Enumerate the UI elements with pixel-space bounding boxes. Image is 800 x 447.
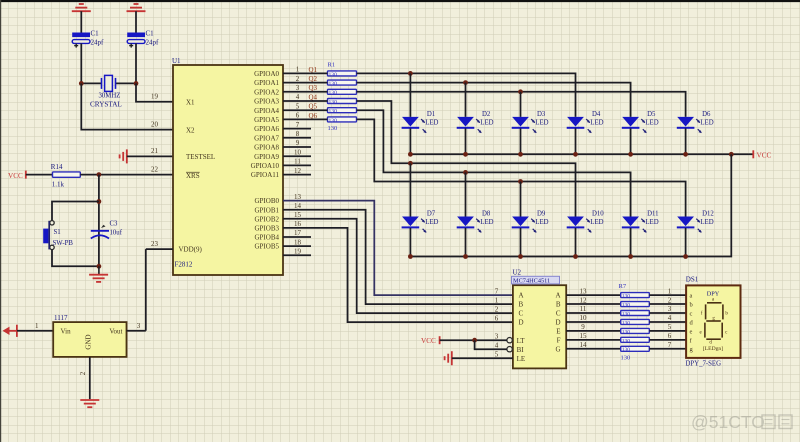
svg-text:11: 11 [580, 305, 587, 313]
diode D2 LED [457, 111, 494, 133]
wire D5 to rail [630, 128, 632, 154]
pin stub GPIOA10 [283, 164, 311, 166]
svg-text:22: 22 [151, 166, 159, 174]
junction at switch branch [97, 199, 102, 204]
svg-text:3: 3 [296, 84, 300, 92]
wire C1 left to crystal node [80, 43, 82, 83]
wire net Q3 to D3 and D6 [357, 92, 686, 117]
svg-text:13: 13 [580, 287, 588, 295]
svg-text:8: 8 [296, 130, 300, 138]
wire pin 1 to resistor [283, 72, 328, 74]
svg-text:D6: D6 [702, 111, 711, 118]
wire branch to switch S1 [52, 202, 99, 221]
wire net Q4 to D7 and D10 [357, 101, 576, 217]
svg-text:C1: C1 [91, 29, 100, 37]
svg-text:1: 1 [668, 287, 672, 295]
svg-text:Vin: Vin [61, 328, 72, 336]
svg-text:1.1k: 1.1k [52, 181, 65, 189]
svg-text:GPIOA8: GPIOA8 [254, 144, 279, 152]
svg-text:GPIOB1: GPIOB1 [254, 206, 279, 214]
svg-text:G: G [555, 345, 560, 353]
ground at LE [445, 351, 452, 365]
svg-text:130: 130 [329, 72, 338, 78]
svg-text:10uf: 10uf [110, 230, 123, 237]
svg-text:130: 130 [329, 118, 338, 124]
U2 left pin numbers [495, 287, 499, 358]
U2 right pin numbers [580, 287, 588, 349]
wire pin 5 to resistor [283, 109, 328, 111]
svg-text:VCC: VCC [421, 337, 436, 345]
svg-text:DPY_7-SEG: DPY_7-SEG [686, 361, 722, 368]
svg-text:4: 4 [495, 341, 499, 349]
pin stub GPIOA9 [283, 155, 311, 157]
junctions on top rail [408, 152, 734, 157]
svg-text:C3: C3 [110, 221, 119, 228]
DS1 pin names a-g [690, 293, 694, 354]
svg-text:130: 130 [329, 90, 338, 96]
wire VDD down to regulator output [145, 249, 147, 331]
svg-text:GPIOB4: GPIOB4 [254, 234, 279, 242]
wire R7 row 6 to DS1 [649, 339, 686, 341]
wire D2 top [465, 83, 467, 117]
svg-text:5: 5 [668, 323, 672, 331]
U2 left pin names [517, 292, 526, 363]
svg-text:130: 130 [622, 347, 631, 353]
svg-text:130: 130 [329, 109, 338, 115]
svg-text:D4: D4 [592, 111, 601, 118]
wire R7 row 7 to DS1 [649, 348, 686, 350]
wire D3 to rail [520, 128, 522, 154]
wire pin 4 to resistor [283, 100, 328, 102]
svg-text:7: 7 [495, 287, 499, 295]
wire VDD pin 23 [146, 248, 173, 250]
pin stub GPIOA6 [283, 128, 311, 130]
svg-text:U1: U1 [172, 57, 181, 65]
svg-text:GPIOA4: GPIOA4 [254, 107, 279, 115]
svg-text:4: 4 [668, 314, 672, 322]
part value MC74HC4511 (highlighted) [512, 276, 560, 284]
svg-text:15: 15 [580, 332, 588, 340]
svg-text:23: 23 [151, 240, 159, 248]
svg-text:D: D [555, 319, 560, 327]
wire U2 segment e to R7 [566, 330, 621, 332]
wire U2 segment f to R7 [566, 339, 621, 341]
junction Q6/D9 [518, 179, 523, 184]
svg-text:LED: LED [535, 219, 548, 226]
svg-text:VCC: VCC [8, 172, 23, 180]
wire bottom LED rail [410, 154, 731, 256]
wire regulator Vout pin 3 [127, 330, 146, 332]
diode D9 LED [512, 211, 549, 233]
svg-text:D9: D9 [537, 211, 546, 218]
junction node crystal left [79, 81, 84, 86]
svg-text:10: 10 [580, 314, 588, 322]
wire TESTSEL pin 21 [127, 155, 173, 157]
wire U2 segment b to R7 [566, 303, 621, 305]
svg-text:D7: D7 [427, 211, 436, 218]
svg-text:R7: R7 [619, 283, 627, 290]
svg-text:6: 6 [495, 314, 499, 322]
wire C1 right to crystal node [135, 43, 137, 83]
wire D2 to rail [465, 128, 467, 154]
svg-text:2: 2 [668, 296, 672, 304]
svg-text:U2: U2 [513, 269, 522, 277]
svg-text:GPIOA3: GPIOA3 [254, 98, 279, 106]
svg-text:9: 9 [581, 323, 585, 331]
svg-text:1: 1 [35, 322, 39, 330]
svg-text:1: 1 [296, 66, 300, 74]
svg-text:LED: LED [590, 120, 603, 127]
diode D11 LED [622, 211, 659, 233]
power port VCC (bottom) [421, 336, 440, 345]
svg-text:2: 2 [79, 371, 87, 375]
svg-text:GPIOA6: GPIOA6 [254, 125, 279, 133]
diode D6 LED [677, 111, 714, 133]
sheet border left [0, 0, 2, 442]
junction Q3/D3 [518, 89, 523, 94]
svg-text:VCC: VCC [757, 151, 772, 159]
svg-text:b: b [690, 301, 693, 308]
junction Q4/D7 [408, 161, 413, 166]
power port VCC (right) [753, 150, 771, 159]
wire net Q1 to D1 and D4 [357, 73, 576, 117]
junction at R14 node [97, 172, 102, 177]
pin bubble LT [507, 338, 512, 343]
svg-text:[LEDgn]: [LEDgn] [703, 346, 723, 352]
svg-text:BI: BI [517, 346, 525, 354]
svg-text:10: 10 [294, 148, 302, 156]
svg-text:A: A [555, 292, 560, 300]
wire D9 top [520, 182, 522, 217]
diode D1 LED [402, 111, 439, 133]
svg-text:GPIOA0: GPIOA0 [254, 70, 279, 78]
junction node crystal right [134, 81, 139, 86]
svg-text:19: 19 [151, 93, 159, 101]
svg-text:D2: D2 [482, 111, 491, 118]
svg-text:C: C [519, 310, 524, 318]
wire pin 3 to resistor [283, 91, 328, 93]
svg-text:GND: GND [85, 334, 93, 349]
svg-text:GPIOA2: GPIOA2 [254, 88, 279, 96]
svg-text:15: 15 [294, 211, 302, 219]
pin stub 17 [283, 236, 311, 238]
wire to X1 pin 19 [136, 83, 173, 101]
svg-text:D12: D12 [702, 211, 714, 218]
U1 GPIOA pin names [251, 70, 280, 179]
svg-text:2: 2 [495, 305, 499, 313]
svg-text:E: E [556, 328, 560, 336]
svg-text:130: 130 [329, 81, 338, 87]
svg-text:D8: D8 [482, 211, 491, 218]
power port VCC (left) [8, 171, 26, 180]
svg-text:14: 14 [580, 341, 588, 349]
svg-text:GPIOA1: GPIOA1 [254, 79, 279, 87]
resistor R14 1.1k [51, 163, 81, 188]
svg-text:5: 5 [296, 102, 300, 110]
junction at bottom node [97, 264, 102, 269]
svg-text:130: 130 [621, 355, 631, 362]
wire pin 6 to resistor [283, 118, 328, 120]
svg-text:16: 16 [294, 220, 302, 228]
wire R7 row 2 to DS1 [649, 303, 686, 305]
svg-text:C: C [556, 310, 561, 318]
wire D8 to rail [465, 228, 467, 257]
wire U2 segment d to R7 [566, 321, 621, 323]
svg-text:1: 1 [495, 296, 499, 304]
wire top LED rail to VCC [410, 153, 753, 155]
svg-text:6: 6 [296, 112, 300, 120]
svg-text:1117: 1117 [54, 314, 68, 322]
junction Q2/D2 [463, 80, 468, 85]
svg-text:30MHZ: 30MHZ [99, 93, 121, 100]
svg-text:LED: LED [480, 219, 493, 226]
junction VCC branch [472, 338, 477, 343]
pin stub 19 [283, 254, 311, 256]
svg-text:R14: R14 [51, 163, 63, 171]
watermark [691, 412, 792, 432]
diode D8 LED [457, 211, 494, 233]
svg-text:6: 6 [668, 332, 672, 340]
svg-text:A: A [519, 292, 524, 300]
svg-text:S1: S1 [54, 229, 61, 236]
svg-text:GPIOA5: GPIOA5 [254, 116, 279, 124]
pin stub 18 [283, 245, 311, 247]
svg-text:DPY: DPY [707, 291, 720, 298]
capacitor C1 (right) [127, 29, 159, 47]
power symbol above left C1 [72, 4, 91, 33]
power port input arrow [3, 325, 17, 337]
svg-text:D3: D3 [537, 111, 546, 118]
svg-text:130: 130 [622, 302, 631, 308]
diode D7 LED [402, 211, 439, 233]
svg-text:X1: X1 [186, 99, 195, 107]
svg-text:3: 3 [495, 332, 499, 340]
sheet border top [0, 0, 800, 2]
svg-text:D10: D10 [592, 211, 604, 218]
wire pin 2 to resistor [283, 82, 328, 84]
capacitor C3 10uf [91, 221, 123, 239]
wire GPIOB2 to U2 C [283, 219, 513, 313]
wire D6 to rail [685, 128, 687, 154]
junction Q1/D1 [408, 71, 413, 76]
U1 GPIOB pin numbers 13-19 [294, 193, 302, 256]
diode D5 LED [622, 111, 659, 133]
svg-text:GPIOA11: GPIOA11 [251, 171, 280, 179]
svg-text:130: 130 [622, 294, 631, 300]
wire GPIOB3 to U2 D [283, 228, 513, 322]
svg-text:F: F [557, 336, 561, 344]
diode D10 LED [567, 211, 605, 233]
diode D12 LED [677, 211, 715, 233]
svg-text:130: 130 [622, 311, 631, 317]
pin stub GPIOA11 [283, 174, 311, 176]
switch S1 SW-PB [43, 221, 73, 250]
wire R7 row 5 to DS1 [649, 330, 686, 332]
wire R7 row 3 to DS1 [649, 312, 686, 314]
svg-text:a: a [690, 293, 693, 300]
junctions on bottom rail [408, 254, 688, 259]
wire LE [452, 357, 513, 359]
svg-text:5: 5 [495, 350, 499, 358]
wire D4 to rail [575, 128, 577, 154]
pin stub GPIOA8 [283, 146, 311, 148]
svg-text:12: 12 [294, 167, 302, 175]
svg-text:GPIOA9: GPIOA9 [254, 153, 279, 161]
wire R7 row 1 to DS1 [649, 294, 686, 296]
wire U2 segment g to R7 [566, 348, 621, 350]
svg-text:GPIOB0: GPIOB0 [254, 197, 279, 205]
svg-text:13: 13 [294, 193, 302, 201]
svg-text:17: 17 [294, 229, 302, 237]
svg-text:7: 7 [296, 121, 300, 129]
svg-text:D11: D11 [647, 211, 658, 218]
diode D4 LED [567, 111, 604, 133]
svg-text:3: 3 [137, 322, 141, 330]
svg-text:LED: LED [590, 219, 603, 226]
wire S1 bottom to node [52, 250, 99, 267]
svg-text:GPIOB3: GPIOB3 [254, 225, 279, 233]
U1 left pin names [179, 99, 216, 254]
svg-text:LED: LED [645, 120, 658, 127]
svg-text:D: D [519, 319, 524, 327]
svg-text:3: 3 [668, 305, 672, 313]
svg-text:130: 130 [328, 125, 338, 132]
svg-text:@51CTO: @51CTO [691, 412, 765, 432]
wire VCC to BI [475, 340, 507, 349]
svg-text:SW-PB: SW-PB [53, 240, 74, 247]
wire D9 to rail [520, 228, 522, 257]
svg-text:21: 21 [151, 147, 159, 155]
wire U2 segment c to R7 [566, 312, 621, 314]
svg-text:LED: LED [700, 120, 713, 127]
svg-text:14: 14 [294, 202, 302, 210]
wire D8 top [465, 172, 467, 216]
wire R14 to XRS pin 22 [80, 174, 173, 176]
wire to X2 pin 20 [81, 83, 173, 129]
svg-text:GPIOA7: GPIOA7 [254, 134, 279, 142]
svg-text:C1: C1 [146, 29, 155, 37]
op IC U1 F2812 body [173, 65, 283, 275]
svg-text:B: B [556, 301, 561, 309]
diode D3 LED [512, 111, 549, 133]
svg-text:2: 2 [296, 75, 300, 83]
wire R7 row 4 to DS1 [649, 321, 686, 323]
svg-text:MC74HC4511: MC74HC4511 [513, 278, 550, 285]
wire D7 top [409, 163, 411, 216]
wire regulator GND pin 2 [89, 357, 91, 399]
wire net Q6 to D9 and D12 [357, 119, 686, 216]
wire U2 segment a to R7 [566, 294, 621, 296]
svg-text:TESTSEL: TESTSEL [186, 153, 215, 161]
wire node down through C3 to ground [98, 175, 100, 267]
svg-text:130: 130 [622, 329, 631, 335]
DS1 pin numbers 1-7 [668, 287, 672, 349]
wire D3 top [520, 92, 522, 117]
svg-text:11: 11 [294, 158, 301, 166]
resistor network R7 [619, 283, 650, 362]
svg-text:LED: LED [425, 120, 438, 127]
svg-text:24pf: 24pf [91, 39, 105, 47]
crystal Y1 30MHZ [81, 75, 136, 108]
svg-text:D1: D1 [427, 111, 435, 118]
power symbol above right C1 [127, 4, 146, 33]
svg-text:B: B [519, 301, 524, 309]
net labels Q1-Q6 [309, 66, 318, 120]
svg-text:F2812: F2812 [175, 261, 193, 269]
svg-text:LED: LED [700, 219, 713, 226]
wire GPIOB0 to U2 A [283, 201, 513, 296]
svg-text:GPIOB2: GPIOB2 [254, 215, 279, 223]
regulator pin names [61, 328, 123, 350]
svg-text:4: 4 [296, 93, 300, 101]
svg-text:LT: LT [517, 337, 526, 345]
svg-text:130: 130 [329, 99, 338, 105]
resistor network R1 [328, 62, 357, 133]
wire D11 to rail [630, 228, 632, 257]
regulator U3 1117 body [53, 322, 126, 357]
svg-text:Vout: Vout [109, 328, 122, 336]
svg-text:12: 12 [580, 296, 588, 304]
wire net Q2 to D2 and D5 [357, 83, 631, 117]
svg-text:9: 9 [296, 139, 300, 147]
svg-text:LED: LED [645, 219, 658, 226]
ground below regulator [80, 400, 99, 407]
svg-text:19: 19 [294, 247, 302, 255]
svg-text:20: 20 [151, 120, 159, 128]
svg-text:X2: X2 [186, 126, 195, 134]
svg-text:LED: LED [425, 219, 438, 226]
svg-text:LED: LED [535, 120, 548, 127]
svg-text:GPIOB5: GPIOB5 [254, 243, 279, 251]
svg-text:18: 18 [294, 238, 302, 246]
svg-text:DS1: DS1 [686, 276, 699, 284]
svg-text:LE: LE [517, 355, 526, 363]
wire net Q5 to D8 and D11 [357, 110, 631, 216]
pin stub GPIOA7 [283, 137, 311, 139]
wire D10 to rail [575, 228, 577, 257]
display DS1 DPY_7-SEG body [686, 285, 740, 358]
junction Q5/D8 [463, 170, 468, 175]
U1 GPIOB pin names [254, 197, 279, 251]
ground at TESTSEL pin 21 [120, 149, 127, 163]
svg-text:D5: D5 [647, 111, 656, 118]
svg-text:VDD(9): VDD(9) [179, 246, 203, 254]
svg-text:130: 130 [622, 320, 631, 326]
svg-text:24pf: 24pf [146, 39, 160, 47]
wire D1 to rail [409, 128, 411, 154]
7-seg digit graphic [699, 298, 728, 346]
wire D7 to rail [409, 228, 411, 257]
ground below C3 [89, 266, 108, 282]
wire D12 to rail [685, 228, 687, 257]
U1 GPIOA pin numbers 1-12 [294, 66, 302, 175]
wire D1 top [409, 73, 411, 117]
wire GPIOB1 to U2 B [283, 210, 513, 304]
svg-text:e: e [690, 328, 693, 335]
svg-text:c: c [690, 310, 693, 317]
svg-text:CRYSTAL: CRYSTAL [90, 101, 122, 109]
wire to regulator Vin pin 1 [17, 330, 53, 332]
svg-text:LED: LED [480, 120, 493, 127]
svg-text:GPIOA10: GPIOA10 [251, 162, 280, 170]
wire VCC to R14 [26, 174, 53, 176]
svg-text:7: 7 [668, 341, 672, 349]
svg-text:R1: R1 [328, 62, 336, 69]
svg-text:130: 130 [622, 338, 631, 344]
svg-text:XRS: XRS [186, 172, 200, 180]
wire VCC to LT [440, 339, 507, 341]
op IC U2 MC74HC4511 body [513, 285, 566, 368]
